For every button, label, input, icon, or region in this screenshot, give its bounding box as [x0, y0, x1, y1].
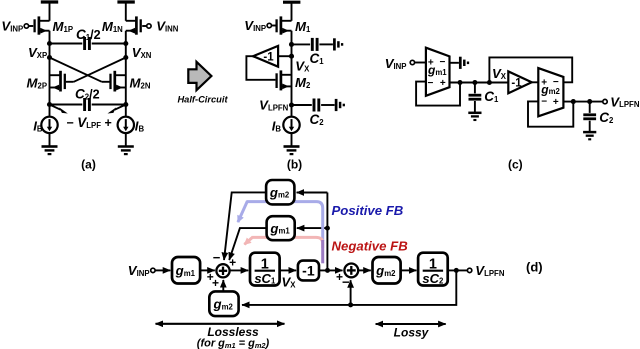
ground left (a) — [49, 133, 51, 146]
summer 2 (d) — [344, 264, 358, 278]
junction bottom feedback (d) — [348, 302, 353, 307]
svg-text:VINP: VINP — [385, 56, 407, 71]
svg-text:-1: -1 — [302, 263, 315, 279]
svg-text:IB: IB — [272, 119, 282, 134]
junction C1 (c) — [472, 80, 477, 85]
ac ground gm1 (c) — [450, 62, 459, 64]
arrow 1/sC1 to -1 (d) — [280, 269, 297, 271]
svg-text:Lossy: Lossy — [394, 325, 430, 339]
span arrow Lossy — [376, 323, 446, 325]
arrow VLPF plus — [115, 105, 126, 110]
svg-text:VLPFN: VLPFN — [475, 263, 505, 278]
current source IB left — [41, 117, 57, 133]
svg-text:VINP: VINP — [128, 263, 150, 278]
svg-text:C1/2: C1/2 — [76, 27, 101, 42]
node VXP — [47, 41, 52, 46]
svg-text:VINP: VINP — [244, 18, 266, 33]
port VINP (c) — [410, 60, 414, 64]
block -1 (d) — [298, 261, 319, 281]
transistor M2P — [59, 71, 62, 92]
block 1/sC2 (d) — [418, 253, 448, 286]
svg-text:−: − — [213, 250, 221, 265]
wire branch (b) — [291, 31, 293, 117]
span arrow Lossless — [156, 323, 285, 325]
svg-text:(d): (d) — [526, 260, 543, 275]
arrow gm1 to summer (d) — [200, 269, 215, 271]
ac ground C1 (b) — [333, 38, 336, 50]
node bottom-left (a) — [47, 102, 52, 107]
svg-text:VINP: VINP — [1, 18, 23, 33]
net VDD rail right (a) — [117, 0, 134, 3]
transconductor gm1 — [426, 48, 450, 96]
svg-text:C1: C1 — [484, 89, 499, 104]
block lower gm2 (d) — [209, 291, 238, 316]
capacitor C1/2 — [50, 43, 83, 45]
junction left (a) — [47, 55, 52, 60]
svg-text:C1: C1 — [310, 51, 325, 66]
wire cross-couple left-to-right — [50, 58, 102, 82]
node VX (c) — [487, 80, 492, 85]
block 1/sC1 (d) — [250, 253, 280, 286]
net VDD rail left (a) — [41, 0, 58, 3]
svg-text:−: − — [541, 97, 547, 108]
wire gm2 output (c) — [563, 101, 602, 103]
port VINP (d) — [151, 268, 155, 272]
svg-text:VINN: VINN — [156, 18, 179, 33]
node 1 (b) — [289, 42, 294, 47]
port VINP (b) — [267, 23, 271, 27]
capacitor C1 (b) — [292, 43, 311, 45]
wire upper gm2 to summer1 (d) — [224, 192, 266, 260]
arrow into upper gm1 (d) — [297, 227, 328, 229]
node VLPFN (b) — [289, 102, 294, 107]
svg-text:C2: C2 — [310, 112, 325, 127]
svg-text:VX: VX — [282, 275, 297, 290]
capacitor C2 (c) — [589, 102, 591, 113]
current source IB right — [118, 117, 134, 133]
transistor M1N — [135, 16, 138, 34]
transistor M2N — [113, 71, 116, 92]
svg-text:M1N: M1N — [102, 19, 123, 34]
wire left branch (a) — [49, 31, 51, 117]
wire feedback vertical (d) — [326, 193, 328, 271]
half-circuit arrow — [188, 62, 211, 90]
port VLPFN (d) — [467, 268, 471, 272]
feedback path purple overlap — [321, 240, 324, 263]
wire cross-couple right-to-left — [74, 58, 126, 82]
block gm1 (d) — [172, 257, 200, 284]
ac ground C2 (b) — [335, 99, 338, 111]
svg-text:Negative FB: Negative FB — [332, 239, 409, 254]
svg-text:− VLPF +: − VLPF + — [67, 115, 112, 130]
node VXN — [123, 41, 128, 46]
port VLPFN (c) — [603, 99, 607, 103]
arrow into upper gm2 (d) — [297, 192, 328, 194]
arrow gm2 to 1/sC2 (d) — [401, 269, 417, 271]
block gm2 right (d) — [373, 257, 401, 284]
wire positive feedback loop (c) — [489, 57, 572, 82]
svg-text:VX: VX — [492, 66, 507, 81]
amp -1 (b) — [253, 46, 278, 67]
ground C1 (c) — [468, 112, 481, 115]
node VX (b) — [289, 54, 294, 59]
svg-text:M1P: M1P — [53, 19, 74, 34]
negative feedback path pink — [252, 237, 322, 248]
svg-text:+: + — [440, 78, 446, 89]
arrow bottom to summer2 (d) — [350, 280, 352, 305]
svg-text:−: − — [439, 57, 445, 68]
svg-text:Positive FB: Positive FB — [332, 203, 404, 218]
block upper gm1 (d) — [267, 216, 295, 240]
svg-text:M2N: M2N — [130, 76, 151, 91]
svg-text:Half-Circuit: Half-Circuit — [177, 95, 228, 105]
svg-text:(c): (c) — [508, 158, 523, 172]
svg-text:M2: M2 — [295, 75, 311, 90]
transconductor gm2 (c) — [538, 68, 563, 116]
ground right (a) — [125, 133, 127, 146]
positive feedback path blue — [247, 202, 323, 241]
wire gm1 output (c) — [450, 82, 509, 84]
svg-text:M1: M1 — [295, 19, 311, 34]
svg-text:VLPFN: VLPFN — [610, 94, 640, 109]
capacitor C2/2 — [50, 104, 83, 106]
svg-text:−: − — [427, 78, 433, 89]
svg-text:VLPFN: VLPFN — [259, 98, 289, 113]
svg-text:C2/2: C2/2 — [75, 87, 100, 102]
transistor M2 (b) — [280, 70, 283, 90]
svg-text:M2P: M2P — [27, 76, 48, 91]
arrow summer2 to gm2 (d) — [358, 269, 371, 271]
wire 1/sC2 to output (d) — [447, 269, 467, 271]
svg-text:+: + — [553, 97, 559, 108]
port VINP (a) — [24, 24, 28, 28]
junction right (a) — [123, 55, 128, 60]
net VDD rail (b) — [283, 1, 300, 4]
junction gm1 fb (c) — [457, 80, 462, 85]
wire -1 to summer2 (d) — [319, 269, 343, 271]
junction gm2 fb (c) — [571, 99, 576, 104]
junction upper gm1 tap (d) — [325, 226, 330, 231]
node after -1 (d) — [325, 268, 330, 273]
wire -1 feedback (b) — [246, 56, 275, 80]
arrow VLPF minus — [50, 105, 61, 110]
svg-text:VX: VX — [295, 59, 310, 74]
svg-text:C2: C2 — [599, 110, 614, 125]
svg-text:-1: -1 — [263, 52, 274, 64]
capacitor C1 (c) — [474, 83, 476, 94]
wire right branch (a) — [125, 31, 127, 117]
svg-text:IB: IB — [135, 119, 145, 134]
svg-text:(b): (b) — [287, 158, 302, 172]
junction C2 (c) — [587, 99, 592, 104]
wire upper gm1 to summer1 (d) — [229, 228, 266, 260]
block upper gm2 (d) — [266, 180, 294, 204]
transistor M1 — [280, 16, 283, 34]
current source IB (b) — [283, 117, 299, 133]
port VINN (a) — [147, 24, 151, 28]
svg-text:(a): (a) — [81, 158, 96, 172]
svg-text:(for gm1 = gm2): (for gm1 = gm2) — [197, 338, 270, 349]
svg-text:-1: -1 — [511, 78, 522, 90]
arrow summer1 to 1/sC1 (d) — [230, 269, 249, 271]
node output (d) — [454, 268, 459, 273]
svg-text:+: + — [212, 276, 219, 290]
wire gm1 feedback loop (c) — [416, 82, 460, 106]
svg-text:VXN: VXN — [132, 45, 152, 60]
node bottom-right (a) — [123, 102, 128, 107]
arrow VINP to gm1 (d) — [155, 269, 170, 271]
wire bottom feedback (d) — [242, 270, 456, 305]
ground C2 (c) — [583, 131, 596, 134]
svg-text:VXP: VXP — [28, 45, 47, 60]
transistor M1P — [38, 16, 41, 34]
ground (b) — [291, 133, 293, 146]
wire gm2 feedback loop (c) — [528, 101, 573, 126]
arrow lower gm2 to summer1 (d) — [222, 280, 224, 291]
capacitor C2 (b) — [292, 104, 312, 106]
summer 1 (d) — [216, 264, 229, 277]
amp -1 (c) — [508, 71, 531, 93]
svg-text:−: − — [342, 275, 350, 290]
